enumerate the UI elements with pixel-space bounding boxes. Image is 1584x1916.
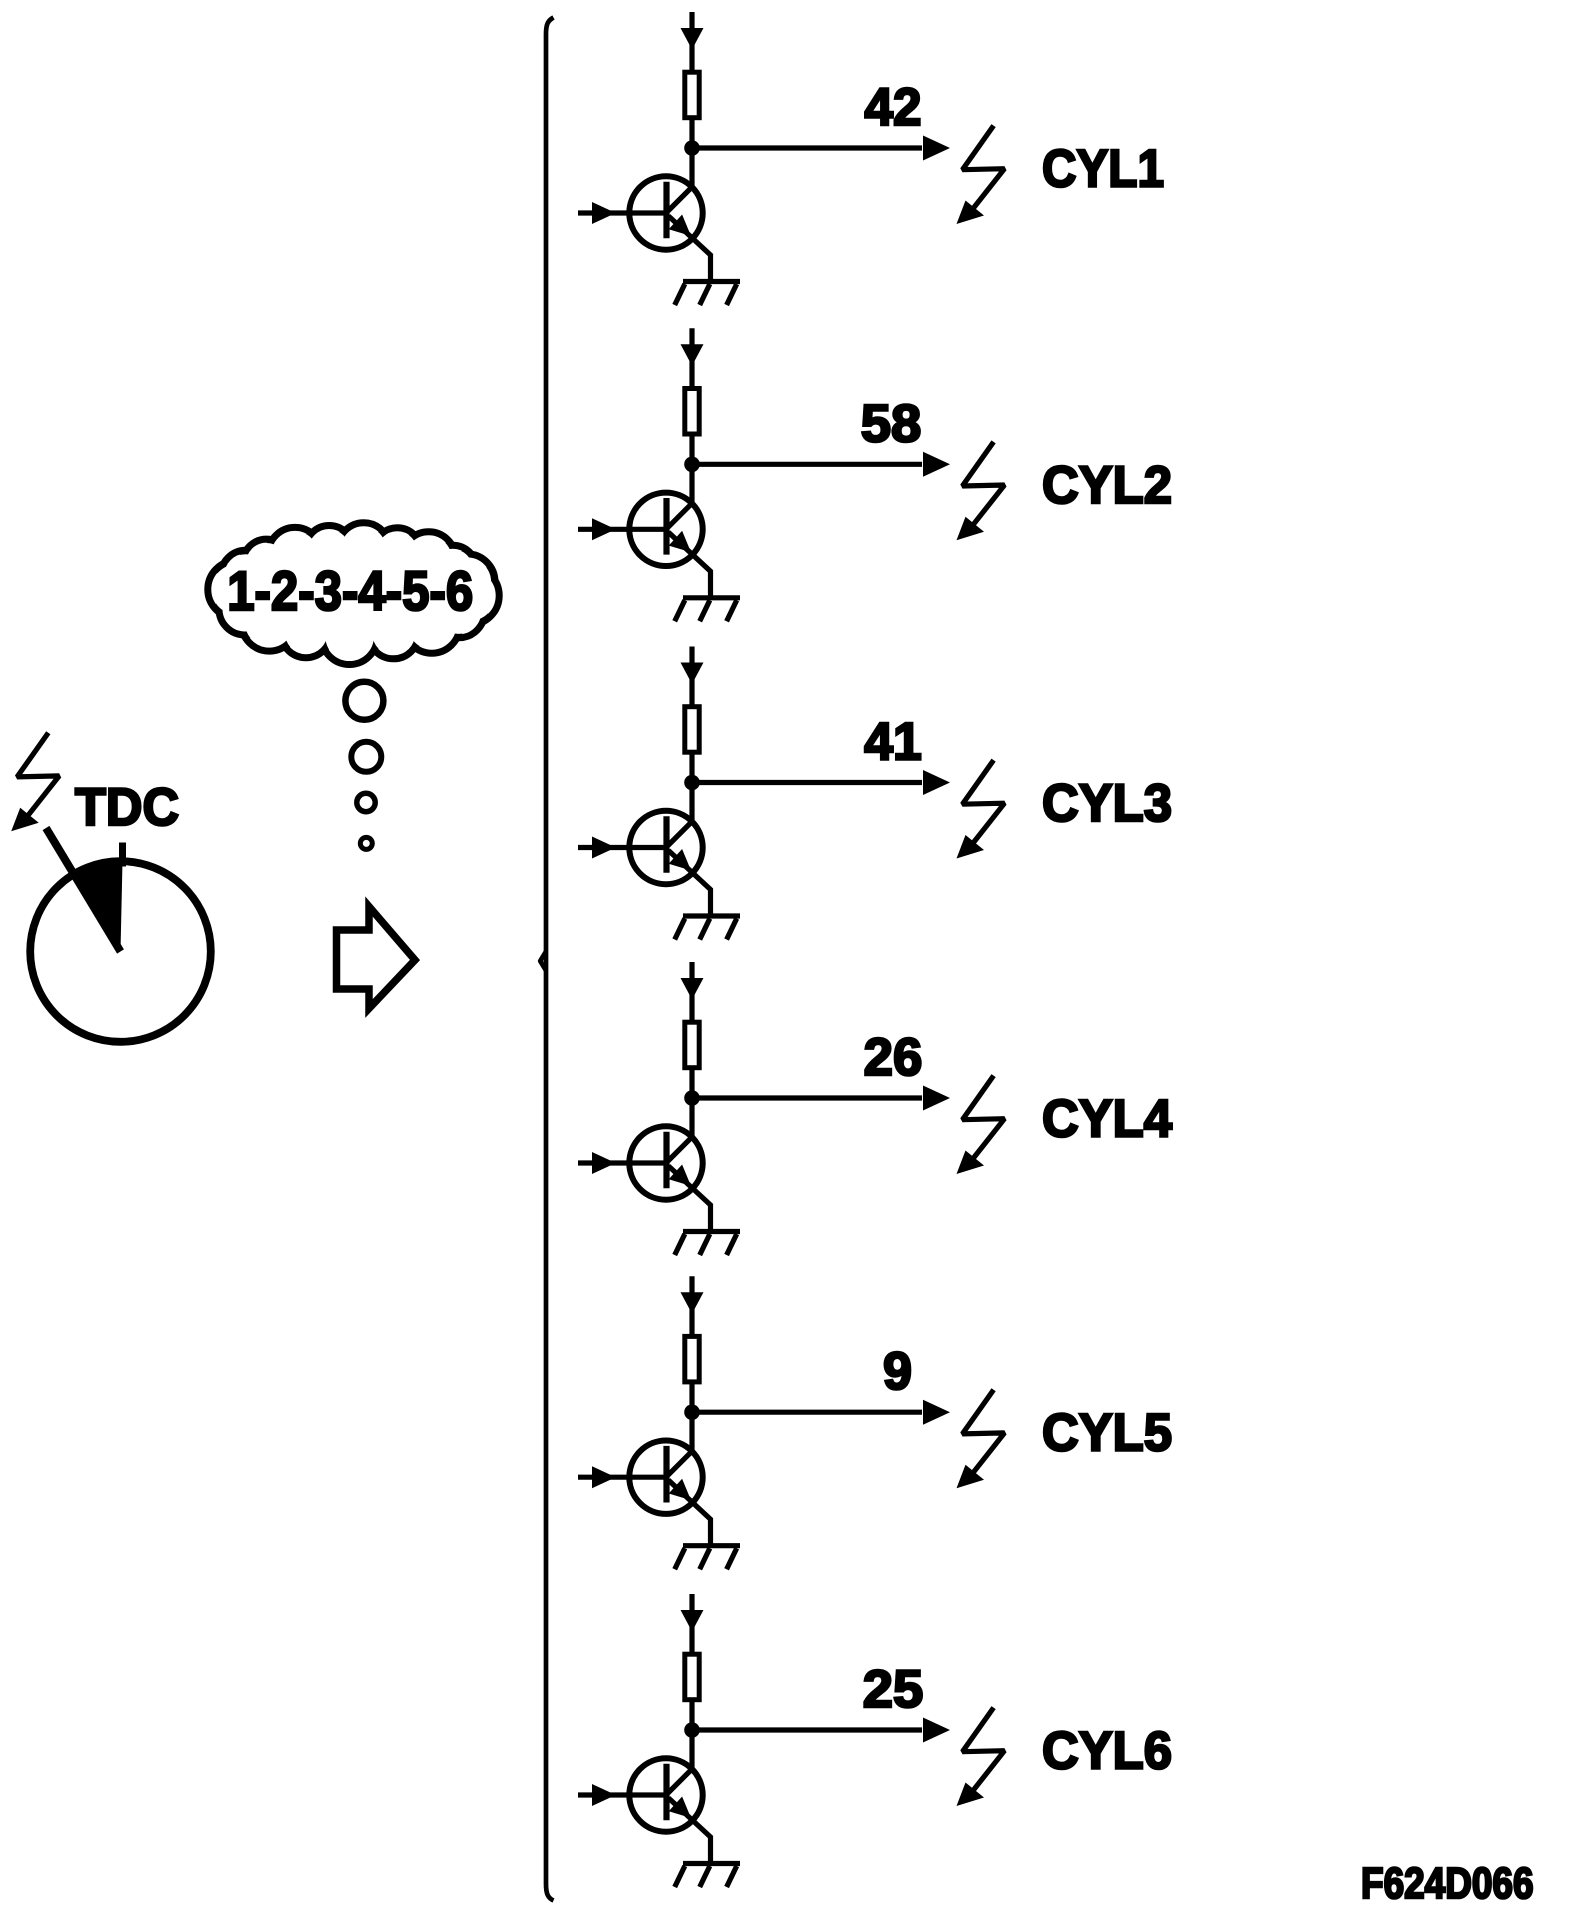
svg-text:CYL2: CYL2 [1042,456,1172,515]
svg-text:1-2-3-4-5-6: 1-2-3-4-5-6 [227,559,473,622]
svg-text:25: 25 [863,1660,924,1719]
svg-text:CYL3: CYL3 [1042,774,1172,833]
svg-text:CYL1: CYL1 [1042,140,1164,199]
svg-text:58: 58 [861,394,922,453]
svg-text:26: 26 [864,1028,923,1087]
svg-text:41: 41 [864,713,922,772]
svg-text:F624D066: F624D066 [1361,1859,1534,1908]
svg-text:9: 9 [883,1342,912,1401]
svg-text:CYL4: CYL4 [1042,1090,1172,1149]
svg-text:42: 42 [865,78,922,137]
svg-text:CYL5: CYL5 [1042,1404,1172,1463]
svg-text:TDC: TDC [75,778,179,837]
svg-text:CYL6: CYL6 [1042,1722,1172,1781]
